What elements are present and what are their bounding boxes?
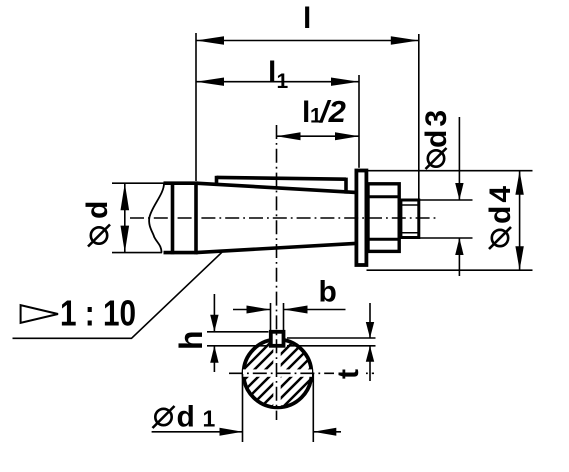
dimension line d3 lower (458, 238, 460, 276)
dimension line b left tail (233, 309, 271, 311)
arrowhead d4 bottom (515, 246, 523, 270)
shaft shoulder line 2 (taper large end) (194, 182, 198, 255)
dimension line b right tail (284, 309, 346, 311)
label t (rotated) (332, 366, 365, 381)
svg-text:1: 1 (203, 406, 216, 432)
extension line h top (207, 331, 269, 333)
label l1 (268, 56, 289, 93)
white gap along vertical centerline of section (273, 340, 280, 406)
svg-text:d: d (81, 201, 114, 219)
dimension line d3 upper (458, 117, 460, 200)
extension line d bottom (112, 252, 162, 254)
arrowhead t top (366, 322, 374, 338)
arrowhead l left (196, 36, 224, 44)
dimension line h upper (213, 294, 215, 332)
taper leader line (13, 252, 223, 338)
shaft break line (wavy) (149, 183, 164, 252)
extension line l1 right (358, 75, 360, 168)
section plane vertical centerline (276, 125, 278, 420)
arrowhead t bottom (366, 346, 374, 362)
key right end (344, 178, 348, 194)
extension line b right (283, 303, 285, 330)
extension line t bottom (287, 345, 376, 347)
extension line b left (270, 303, 272, 330)
cross-section circle d1 (244, 339, 312, 407)
dimension line d4 (519, 171, 521, 271)
thread minor diameter line lower (401, 232, 418, 234)
svg-text:/2: /2 (318, 94, 346, 129)
extension line d1 right (312, 374, 314, 442)
extension line h bottom (207, 345, 269, 347)
taper cone bottom edge (1:10) (196, 243, 356, 252)
label diameter d4 (rotated) (484, 183, 517, 249)
dimension line h lower (213, 346, 215, 372)
dimension line l1 (196, 81, 359, 83)
dimension line l1/2 (277, 135, 360, 137)
svg-text:t: t (332, 369, 365, 379)
extension line d3 bottom (420, 237, 473, 239)
key left end (215, 176, 219, 186)
arrowhead d3 top (455, 183, 463, 200)
svg-text:b: b (319, 276, 337, 309)
extension line l right (418, 34, 420, 199)
dimension line d1 left tail (152, 431, 243, 433)
arrowhead d top (121, 183, 130, 210)
nut (368, 184, 399, 252)
svg-text:l: l (268, 56, 276, 89)
extension line d1 left (242, 374, 244, 442)
svg-text:1 : 10: 1 : 10 (60, 293, 136, 334)
svg-text:d4: d4 (484, 183, 517, 224)
taper symbol triangle (21, 305, 58, 323)
dimension line d (124, 183, 126, 252)
shaft shoulder line 1 (171, 182, 175, 255)
extension line d4 bottom (367, 269, 533, 271)
dimension line d1 right tail (313, 431, 341, 433)
label diameter d3 (rotated) (420, 107, 453, 169)
svg-text:h: h (173, 330, 209, 350)
section horizontal centerline (229, 372, 374, 374)
arrowhead d bottom (121, 226, 130, 253)
svg-text:l: l (303, 2, 311, 35)
taper cone top edge (1:10) (196, 183, 356, 192)
arrowhead l right (391, 36, 419, 44)
nut chamfer line upper (368, 195, 398, 198)
extension line t top (287, 337, 376, 339)
label diameter d1 (153, 401, 216, 434)
arrowhead b left (247, 306, 271, 314)
arrowhead h bottom (210, 346, 218, 363)
washer (356, 171, 366, 266)
arrowhead d3 bottom (455, 238, 463, 255)
svg-text:1: 1 (277, 70, 289, 93)
nut chamfer line lower (368, 238, 398, 241)
extension line d3 top (420, 199, 473, 201)
arrowhead l1 right (331, 78, 359, 86)
shaft body bottom edge (164, 251, 198, 255)
arrowhead b right (284, 306, 308, 314)
arrowhead d4 top (515, 171, 523, 195)
shaft axis centerline (130, 217, 437, 219)
label diameter d (rotated) (81, 201, 114, 247)
white gap along horizontal centerline of section (243, 369, 312, 376)
shaft body top edge (164, 181, 198, 185)
arrowhead l1 left (196, 78, 224, 86)
arrowhead d1 right (313, 428, 336, 436)
thread minor diameter line upper (401, 204, 418, 206)
dimension line t upper (369, 303, 371, 338)
threaded end d3 (401, 200, 419, 238)
keyway slot b x h in section (271, 332, 284, 346)
arrowhead h top (210, 315, 218, 332)
extension line d4 top (367, 170, 533, 172)
key top edge (217, 177, 347, 179)
label l1/2 (302, 94, 346, 129)
arrowhead l1/2 right (335, 132, 359, 140)
dimension line t lower (369, 346, 371, 381)
extension line l left (195, 33, 197, 181)
arrowhead d1 left (220, 428, 243, 436)
extension line d top (112, 182, 164, 184)
arrowhead l1/2 left (277, 132, 301, 140)
svg-text:d3: d3 (420, 107, 453, 148)
dimension line l (196, 40, 419, 42)
svg-text:d: d (177, 401, 195, 434)
